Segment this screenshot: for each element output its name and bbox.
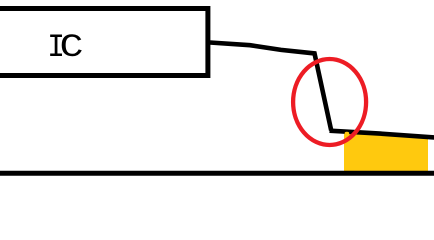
svg-text:C: C — [60, 29, 84, 65]
